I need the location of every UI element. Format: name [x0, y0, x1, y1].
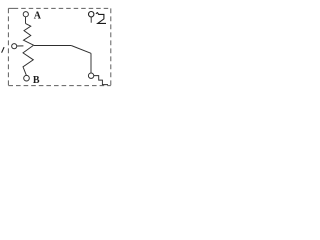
enclosure dashed box: right edge — [110, 8, 112, 85]
wire A stub — [25, 17, 27, 24]
wire wiper tap horizontal — [34, 45, 71, 47]
label 1 (slanted stroke outside box) — [2, 47, 5, 53]
svg-text:A: A — [34, 11, 42, 22]
wire vertical to switch — [90, 53, 92, 73]
wiper wire — [17, 45, 24, 47]
switch bracket steps — [94, 76, 108, 85]
terminal 2 circle — [89, 12, 94, 17]
wire stub terminal 2 — [90, 17, 92, 23]
resistor R (potentiometer element) — [23, 23, 34, 75]
wire diagonal — [71, 46, 91, 54]
wiper terminal circle — [12, 44, 17, 49]
terminal A circle — [23, 12, 28, 17]
enclosure dashed box: left edge — [7, 8, 9, 85]
label 2 — [96, 13, 106, 24]
switch contact circle — [88, 73, 93, 78]
enclosure dashed box: top edge — [8, 7, 110, 9]
enclosure dashed box: bottom edge — [8, 85, 110, 87]
terminal B circle — [24, 75, 30, 81]
svg-text:B: B — [33, 75, 40, 86]
